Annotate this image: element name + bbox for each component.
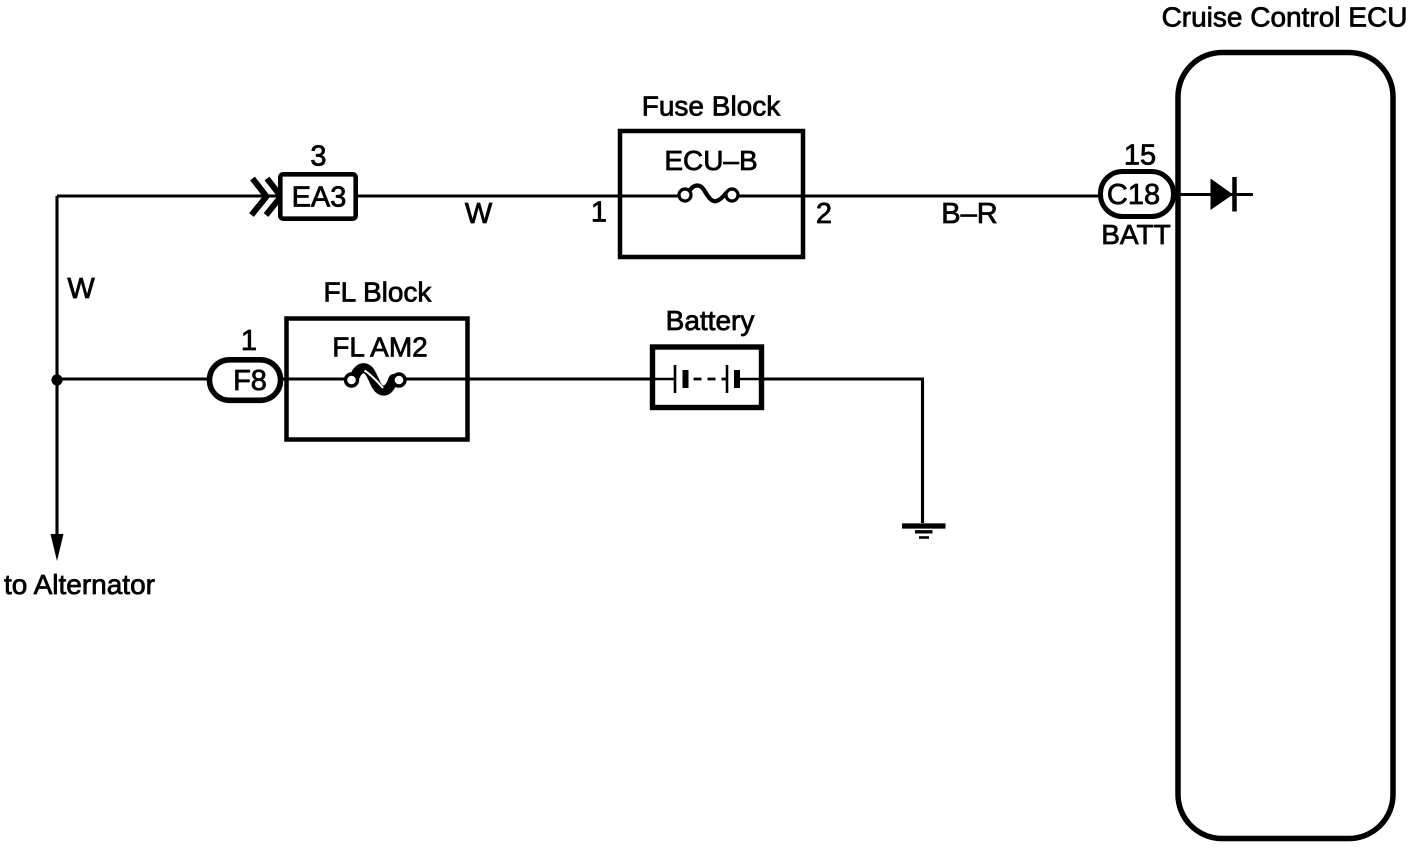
svg-text:W: W [465,198,493,230]
svg-text:Battery: Battery [666,305,755,336]
svg-text:1: 1 [591,197,607,229]
svg-text:2: 2 [816,198,832,230]
svg-text:to Alternator: to Alternator [4,569,155,600]
svg-text:Cruise Control ECU: Cruise Control ECU [1162,2,1408,33]
svg-text:FL Block: FL Block [324,277,433,308]
svg-text:B–R: B–R [941,198,997,230]
svg-text:1: 1 [241,325,257,357]
svg-text:W: W [67,273,95,305]
svg-text:FL AM2: FL AM2 [332,332,427,363]
svg-text:Fuse Block: Fuse Block [642,91,781,122]
svg-text:F8: F8 [233,365,267,397]
svg-text:15: 15 [1124,140,1156,172]
svg-text:BATT: BATT [1101,219,1170,250]
svg-text:EA3: EA3 [292,182,347,214]
svg-text:3: 3 [310,141,326,173]
svg-text:ECU–B: ECU–B [664,145,757,176]
svg-text:C18: C18 [1107,179,1160,211]
